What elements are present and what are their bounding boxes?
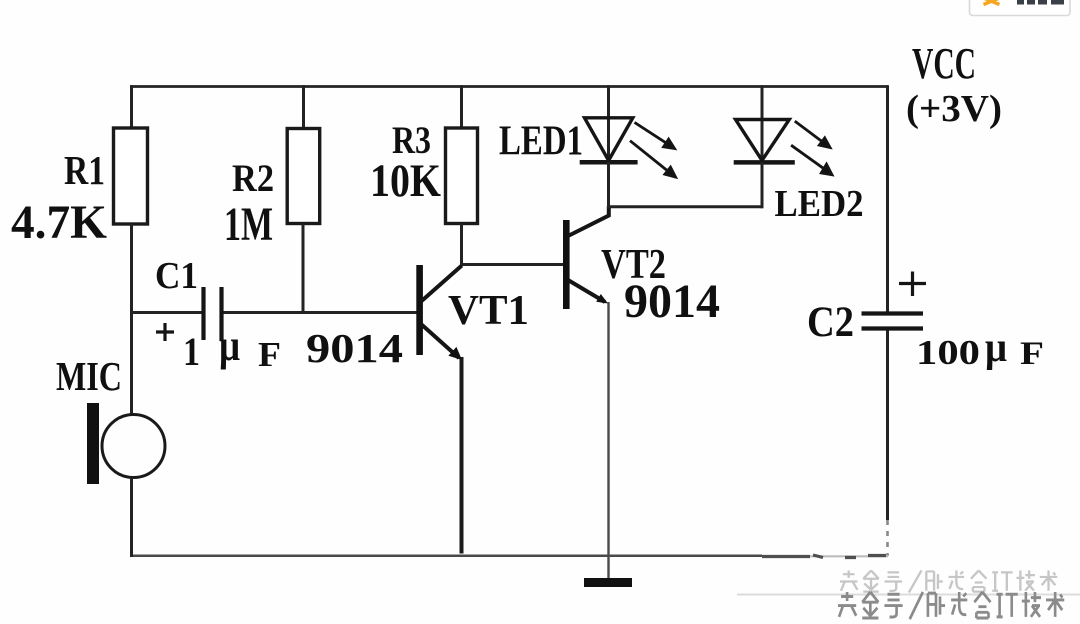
svg-text:9014: 9014	[624, 275, 720, 328]
wire: right rail bottom	[886, 331, 889, 521]
capacitor C1	[204, 287, 222, 340]
LED2 cathode bar	[734, 160, 795, 165]
transistor VT1 collector	[421, 266, 462, 302]
svg-text:10K: 10K	[370, 155, 441, 207]
watermark gray row	[840, 571, 1057, 593]
svg-text:R2: R2	[232, 157, 274, 200]
svg-text:VCC: VCC	[912, 39, 976, 88]
resistor R3	[446, 128, 478, 224]
toutiao logo text	[1017, 0, 1064, 5]
wire: R3 top	[460, 85, 463, 128]
svg-text:1M: 1M	[224, 198, 273, 251]
wire: C1 left lead	[130, 311, 202, 314]
wire: LED1 cathode down	[607, 162, 610, 208]
svg-text:μ: μ	[219, 321, 240, 370]
svg-text:MIC: MIC	[56, 353, 122, 399]
wire: VT1 emitter to ground rail	[460, 357, 464, 554]
transistor VT1 base bar	[416, 265, 423, 355]
microphone MIC circle	[102, 415, 165, 478]
wire: left rail upper	[130, 85, 133, 129]
svg-text:LED1: LED1	[499, 119, 583, 165]
svg-text:LED2: LED2	[775, 183, 864, 225]
svg-text:μ: μ	[985, 325, 1007, 371]
LED2 light arrows	[791, 121, 832, 175]
svg-text:1: 1	[183, 329, 200, 374]
LED LED1 triangle	[585, 118, 633, 161]
microphone MIC bar	[87, 403, 99, 484]
wire: left rail lower	[130, 478, 133, 558]
bottom wire (ground rail)	[130, 555, 762, 558]
wire: right rail top	[886, 85, 889, 311]
bottom wire dark dashes	[762, 555, 886, 558]
wire: R2 top	[302, 85, 305, 129]
svg-text:F: F	[1020, 336, 1044, 372]
C1 polarity plus	[156, 323, 174, 341]
toutiao logo icon	[984, 0, 1000, 5]
ground symbol	[584, 578, 632, 587]
resistor R2	[287, 129, 320, 224]
watermark dark row	[838, 592, 1064, 619]
wire: LED junction to LED2	[607, 205, 762, 208]
wire: VT2 emitter down to ground	[607, 302, 609, 578]
transistor VT2 collector	[568, 206, 609, 236]
svg-text:F: F	[258, 335, 281, 374]
svg-text:(+3V): (+3V)	[906, 88, 1002, 130]
wire: LED1 anode	[607, 85, 610, 162]
svg-text:VT1: VT1	[448, 288, 529, 334]
wire: right rail bottom faded	[886, 520, 889, 556]
svg-text:4.7K: 4.7K	[11, 196, 107, 249]
transistor VT1 emitter	[421, 324, 459, 358]
LED1 light arrows	[630, 122, 676, 177]
svg-text:C1: C1	[155, 255, 198, 297]
svg-text:9014: 9014	[306, 325, 403, 371]
LED1 cathode bar	[580, 160, 638, 165]
wire: LED2 anode	[761, 85, 764, 162]
C2 polarity plus	[899, 272, 926, 297]
wire: C1 to VT1 base	[224, 311, 418, 314]
svg-text:100: 100	[916, 333, 980, 372]
capacitor C2	[862, 314, 924, 329]
resistor R1	[114, 128, 148, 224]
svg-text:R1: R1	[64, 147, 105, 193]
transistor VT1 emitter arrow	[448, 347, 462, 360]
wire: left rail mid	[130, 224, 133, 416]
wire: LED2 cathode down	[761, 162, 764, 208]
transistor VT2 emitter arrow	[596, 294, 608, 304]
toutiao logo box	[970, 0, 1071, 16]
transistor VT2 emitter	[568, 280, 605, 302]
bottom wire faded segment	[762, 555, 888, 557]
wire: R2 bottom	[302, 224, 305, 314]
svg-text:C2: C2	[807, 299, 854, 346]
watermark faint underline	[737, 594, 1080, 596]
transistor VT2 base bar	[563, 220, 570, 309]
LED LED2 triangle	[736, 120, 790, 161]
top wire (VCC rail)	[130, 85, 888, 88]
wire: R3 bottom	[460, 224, 463, 267]
wire: VT1 collector to VT2 base	[462, 263, 564, 266]
